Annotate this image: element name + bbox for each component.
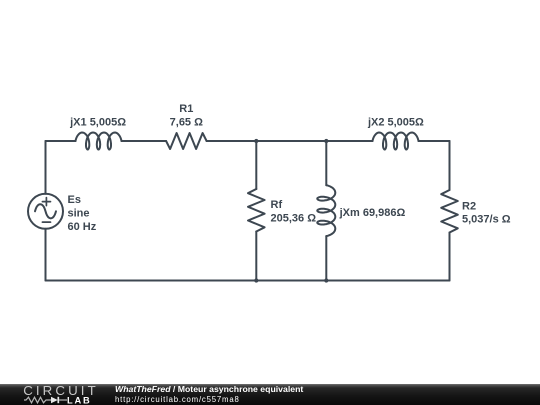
svg-text:R1: R1 [179,103,193,115]
node D junction dot bottom right [324,278,328,282]
inductor jX2 [373,133,419,150]
wire node B to jX2 [326,140,372,142]
svg-text:Es: Es [68,194,81,206]
svg-text:Rf: Rf [271,199,283,211]
svg-text:5,037/s Ω: 5,037/s Ω [462,214,511,226]
logo diode bar [57,397,59,403]
logo diode triangle [51,397,58,403]
voltage source plus sign [42,198,50,206]
node B junction dot top right [324,139,328,143]
svg-text:jX1 5,005Ω: jX1 5,005Ω [69,117,126,129]
wire right vertical upper [449,141,451,190]
wire top horizontal left segment [46,140,76,142]
wire right vertical lower [449,233,451,281]
wire R1 to node A [207,140,257,142]
footer bar [0,384,540,405]
footer title line [115,384,303,394]
resistor R2 [441,190,458,233]
inductor jX1 [76,133,122,150]
resistor Rf [248,189,265,232]
wire between jX1 and R1 [122,140,167,142]
svg-text:jXm 69,986Ω: jXm 69,986Ω [339,207,406,219]
logo resistor squiggle [24,397,51,403]
wire jXm branch lower [325,236,327,280]
svg-text:jX2 5,005Ω: jX2 5,005Ω [367,117,424,129]
voltage source sine wave [35,204,56,218]
CircuitLab logo wordmark CIRCUIT [23,383,99,398]
wire node A to node B [256,140,326,142]
wire jX2 to right corner [419,140,450,142]
wire jXm branch upper [325,141,327,185]
node A junction dot top left [254,139,258,143]
node C junction dot bottom left [254,278,258,282]
wire left vertical above source [45,141,47,194]
wire left vertical below source [45,229,47,281]
svg-text:LAB: LAB [67,396,92,405]
voltage source minus sign [42,221,50,223]
svg-text:sine: sine [68,207,90,219]
footer url line [115,395,240,404]
CircuitLab logo symbol line (resistor squiggle + diode) and LAB [23,396,95,405]
svg-text:7,65 Ω: 7,65 Ω [170,117,203,129]
resistor R1 [166,133,207,149]
inductor jXm [317,185,335,236]
svg-text:205,36 Ω: 205,36 Ω [271,212,317,224]
logo wire to LAB [59,399,67,401]
wire bottom horizontal [46,280,450,282]
svg-text:60 Hz: 60 Hz [68,221,97,233]
wire Rf branch upper [255,141,257,189]
voltage source Es circle [28,194,63,229]
wire Rf branch lower [255,232,257,281]
svg-text:R2: R2 [462,200,476,212]
